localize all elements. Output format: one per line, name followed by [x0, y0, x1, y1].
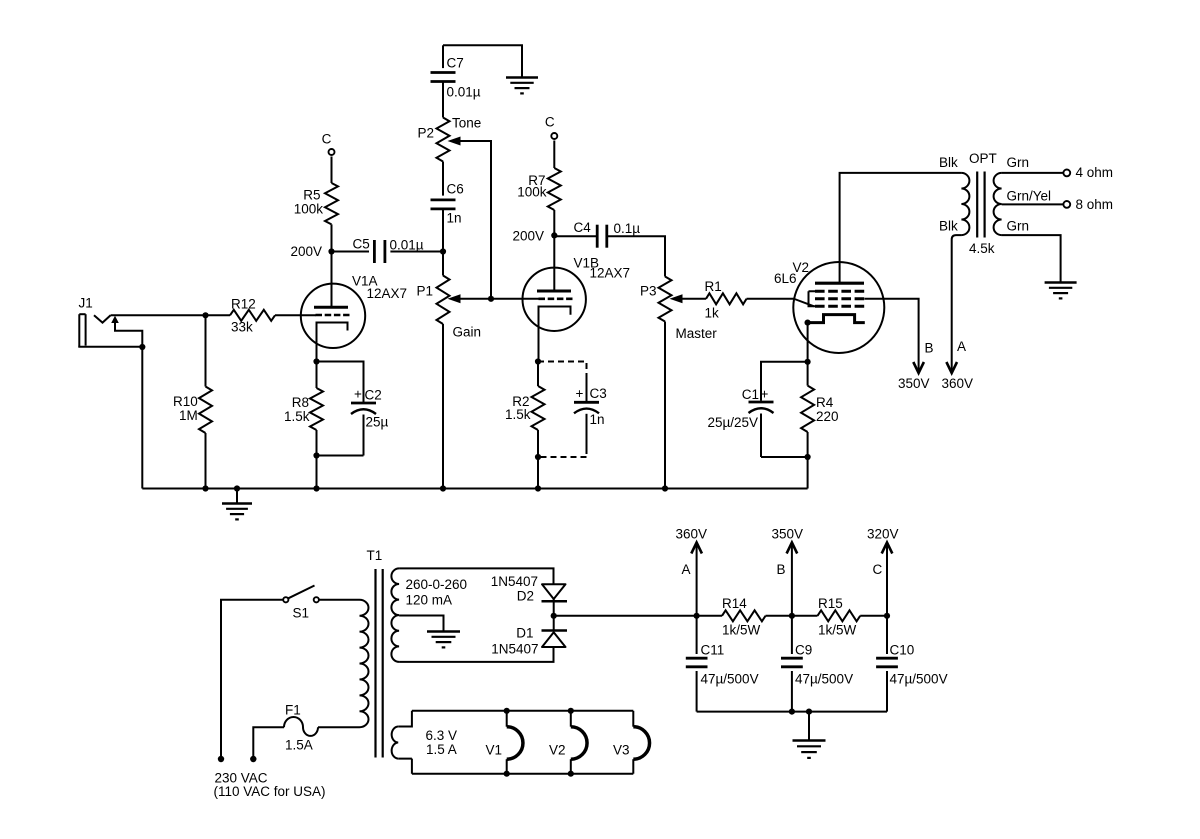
resistor R5: [331, 157, 333, 184]
wire R15 to C: [860, 615, 887, 617]
wire mains neutral to fuse: [253, 727, 284, 759]
wire OPT primary bottom to A supply: [952, 235, 962, 372]
supply arrow 350V B: [791, 543, 793, 616]
svg-text:V3: V3: [613, 743, 630, 758]
svg-text:1.5k: 1.5k: [284, 409, 310, 424]
resistor R1: [706, 293, 747, 304]
capacitor C1: [749, 401, 774, 404]
transformer OPT core: [976, 172, 978, 238]
svg-text:Blk: Blk: [939, 155, 958, 170]
node filter C: [884, 613, 890, 619]
svg-text:V2: V2: [549, 743, 566, 758]
svg-text:Gain: Gain: [453, 325, 482, 340]
svg-text:350V: 350V: [772, 527, 804, 542]
svg-text:6.3 V: 6.3 V: [426, 728, 458, 743]
node jack ground junction: [139, 344, 145, 350]
resistor R14: [722, 610, 766, 621]
transformer OPT primary winding: [961, 173, 969, 235]
node V1B cathode junction: [535, 358, 541, 364]
svg-text:1n: 1n: [590, 412, 605, 427]
heater V1: [506, 711, 508, 727]
svg-text:1.5A: 1.5A: [285, 738, 313, 753]
terminal C (V1A supply): [329, 149, 335, 155]
resistor R12: [230, 310, 275, 321]
node 200V (V1B plate): [551, 232, 557, 238]
capacitor C6: [442, 162, 444, 196]
node C3/R2 bottom: [535, 454, 541, 460]
terminal C (V1B supply): [551, 133, 557, 139]
svg-text:S1: S1: [293, 606, 310, 621]
dashed wire from C3: [538, 448, 587, 457]
svg-text:C7: C7: [447, 56, 464, 71]
svg-text:12AX7: 12AX7: [367, 286, 408, 301]
resistor R10: [205, 315, 207, 386]
wire V2 plate to OPT: [840, 173, 962, 283]
svg-text:0.01µ: 0.01µ: [447, 85, 481, 100]
wire V2 cathode down: [807, 323, 809, 362]
wire OPT secondary top tap: [1002, 172, 1063, 174]
node filter ground B: [789, 709, 795, 715]
svg-text:R12: R12: [231, 297, 256, 312]
svg-text:C6: C6: [447, 182, 464, 197]
dashed wire to C3: [538, 362, 587, 375]
svg-text:47µ/500V: 47µ/500V: [701, 672, 759, 687]
capacitor C5: [332, 251, 370, 253]
svg-text:220: 220: [816, 409, 839, 424]
svg-text:B: B: [777, 562, 786, 577]
resistor R2: [537, 362, 539, 387]
svg-text:(110 VAC for USA): (110 VAC for USA): [214, 784, 326, 799]
resistor R7: [553, 141, 555, 169]
heater V3: [632, 711, 634, 727]
svg-text:B: B: [925, 341, 934, 356]
svg-text:1k/5W: 1k/5W: [818, 623, 857, 638]
svg-text:4.5k: 4.5k: [969, 241, 995, 256]
svg-text:25µ: 25µ: [366, 415, 389, 430]
capacitor C11: [696, 616, 698, 654]
node V2 cathode: [805, 320, 811, 326]
node P3 bottom rail: [662, 485, 668, 491]
node filter ground stem: [806, 709, 812, 715]
wire OPT secondary bottom to ground: [1002, 235, 1061, 282]
wire switch to T1 primary: [319, 599, 359, 601]
svg-text:C11: C11: [701, 643, 725, 658]
capacitor C7: [442, 45, 444, 68]
wire HV bottom to D1: [399, 647, 553, 662]
svg-text:120 mA: 120 mA: [406, 593, 453, 608]
svg-text:Grn: Grn: [1007, 155, 1030, 170]
svg-text:T1: T1: [367, 548, 383, 563]
svg-text:R10: R10: [173, 394, 198, 409]
svg-text:A: A: [682, 562, 691, 577]
svg-text:R1: R1: [705, 279, 722, 294]
node ground stem rail: [234, 485, 240, 491]
potentiometer P3 Master: [659, 277, 672, 322]
svg-text:1k/5W: 1k/5W: [722, 623, 761, 638]
svg-text:F1: F1: [285, 703, 301, 718]
wire B to R15: [792, 615, 818, 617]
wire mains hot to switch: [221, 600, 283, 759]
svg-text:100k: 100k: [517, 185, 547, 200]
wire HV top to D2: [399, 568, 553, 584]
node 200V (V1A plate): [328, 248, 334, 254]
node filter B: [789, 613, 795, 619]
svg-text:R8: R8: [292, 395, 309, 410]
diode D2: [542, 584, 566, 599]
wire cathode to C1: [761, 362, 808, 401]
svg-text:100k: 100k: [294, 202, 324, 217]
svg-text:A: A: [957, 339, 966, 354]
svg-text:P3: P3: [640, 284, 657, 299]
node C2/R8 bottom: [313, 452, 319, 458]
svg-text:1.5k: 1.5k: [505, 407, 531, 422]
node cathode junction bottom: [805, 454, 811, 460]
jack switch contact arrow: [111, 316, 119, 323]
node grid-leak junction: [202, 312, 208, 318]
wire C2 bottom to R8: [317, 455, 364, 457]
wire P3 wiper to R1: [683, 298, 707, 300]
svg-text:6L6: 6L6: [774, 271, 797, 286]
transformer OPT secondary winding: [994, 173, 1002, 235]
svg-text:260-0-260: 260-0-260: [406, 577, 468, 592]
svg-text:Grn: Grn: [1007, 219, 1030, 234]
wire A to R14: [697, 615, 722, 617]
node filter A: [694, 613, 700, 619]
svg-text:1M: 1M: [179, 408, 198, 423]
svg-text:P2: P2: [417, 126, 434, 141]
wire ground rail: [142, 488, 807, 490]
node R10 rail: [202, 485, 208, 491]
transformer T1 heater winding 6.3V: [398, 711, 412, 727]
svg-text:J1: J1: [79, 296, 93, 311]
heater V2: [570, 711, 572, 727]
wire input to R12: [111, 314, 230, 316]
svg-text:33k: 33k: [231, 320, 253, 335]
tetrode V2 6L6: [793, 262, 884, 353]
wire R1 to V2 grid: [747, 298, 796, 300]
svg-text:C2: C2: [365, 388, 382, 403]
svg-text:V1: V1: [486, 743, 503, 758]
svg-text:D2: D2: [517, 589, 534, 604]
node V1A cathode junction: [313, 358, 319, 364]
svg-text:P1: P1: [416, 284, 433, 299]
potentiometer P1 Gain: [442, 252, 444, 276]
wire heater bottom rail: [412, 773, 633, 775]
resistor R4: [807, 362, 809, 386]
svg-text:4 ohm: 4 ohm: [1076, 165, 1114, 180]
node cathode junction top: [805, 359, 811, 365]
svg-text:200V: 200V: [290, 244, 322, 259]
svg-text:360V: 360V: [676, 527, 708, 542]
capacitor C4: [554, 235, 597, 237]
terminal 4 ohm: [1063, 170, 1070, 177]
wire V1B plate to 200V node: [553, 235, 555, 291]
svg-text:C10: C10: [890, 643, 915, 658]
wire fuse to T1 primary: [318, 726, 360, 728]
svg-text:C9: C9: [795, 643, 812, 658]
wire V2 screen to B supply: [865, 299, 919, 373]
svg-text:R15: R15: [818, 596, 843, 611]
svg-text:R14: R14: [722, 596, 747, 611]
svg-text:8 ohm: 8 ohm: [1076, 197, 1114, 212]
node R2 rail: [535, 485, 541, 491]
wire P2 wiper to grid bus: [461, 141, 492, 299]
svg-text:Master: Master: [676, 326, 718, 341]
capacitor C10: [886, 616, 888, 654]
wire grid bus to V1B grid: [491, 298, 539, 300]
node rectifier output: [551, 613, 557, 619]
node R8 rail: [313, 485, 319, 491]
svg-text:C3: C3: [590, 386, 607, 401]
wire cathode to rail: [807, 432, 809, 489]
svg-text:+: +: [576, 386, 584, 401]
svg-text:R5: R5: [303, 188, 320, 203]
switch S1: [283, 597, 288, 602]
ground (speaker return): [1045, 281, 1077, 283]
svg-text:47µ/500V: 47µ/500V: [795, 672, 853, 687]
svg-text:D1: D1: [516, 626, 533, 641]
transformer T1 HV secondary winding: [391, 568, 399, 662]
svg-text:1n: 1n: [447, 211, 462, 226]
svg-text:Grn/Yel: Grn/Yel: [1007, 189, 1052, 204]
resistor R15: [818, 610, 861, 621]
svg-text:C: C: [545, 115, 555, 130]
svg-text:Tone: Tone: [452, 116, 481, 131]
wire R12 to V1A grid: [275, 314, 316, 316]
svg-text:12AX7: 12AX7: [590, 266, 631, 281]
transformer T1 primary winding: [360, 600, 369, 727]
diode D1: [542, 629, 568, 632]
svg-text:Blk: Blk: [939, 219, 958, 234]
node C5 output junction: [440, 248, 446, 254]
wire rectifier to filter: [554, 615, 697, 617]
svg-text:200V: 200V: [512, 229, 544, 244]
wire jack sleeve to ground node: [78, 346, 142, 348]
svg-text:0.1µ: 0.1µ: [614, 221, 641, 236]
supply arrow 360V A: [696, 543, 698, 616]
connector J1 input jack: [78, 314, 80, 347]
wire filter ground rail: [697, 711, 887, 713]
svg-text:OPT: OPT: [969, 151, 997, 166]
ground (tone cap): [506, 76, 538, 78]
svg-text:320V: 320V: [867, 527, 899, 542]
svg-text:1k: 1k: [705, 306, 720, 321]
svg-text:25µ/25V: 25µ/25V: [708, 415, 759, 430]
wire R14 to B: [766, 615, 792, 617]
capacitor C3 (dashed option): [586, 374, 588, 401]
capacitor C2: [351, 402, 376, 405]
ground (filter): [808, 712, 810, 741]
capacitor C9: [791, 616, 793, 654]
node grid bus junction: [488, 296, 494, 302]
triode V1B: [523, 268, 586, 331]
fuse F1: [284, 717, 318, 736]
svg-text:1N5407: 1N5407: [491, 642, 538, 657]
svg-text:C: C: [322, 132, 332, 147]
terminal 8 ohm: [1063, 201, 1070, 208]
svg-text:C1: C1: [742, 387, 759, 402]
svg-text:+: +: [761, 387, 769, 402]
wire C7 top to ground: [443, 45, 522, 77]
resistor R8: [316, 362, 318, 389]
svg-text:360V: 360V: [942, 376, 974, 391]
svg-text:C4: C4: [574, 220, 592, 235]
wire C1 bottom to R4: [761, 456, 808, 458]
svg-text:C: C: [873, 562, 883, 577]
svg-text:+: +: [354, 387, 362, 402]
wire OPT secondary mid tap: [1002, 203, 1063, 205]
transformer T1 core: [374, 569, 376, 758]
svg-text:0.01µ: 0.01µ: [390, 238, 424, 253]
wire jack ground down to rail: [141, 347, 143, 489]
source 230 VAC terminals: [218, 756, 224, 762]
ground (HV center tap): [427, 630, 460, 632]
svg-text:1.5 A: 1.5 A: [426, 742, 457, 757]
triode V1A: [301, 284, 365, 348]
wire V1A plate to 200V node: [331, 252, 333, 308]
svg-text:1N5407: 1N5407: [491, 574, 538, 589]
svg-text:R4: R4: [816, 395, 834, 410]
svg-text:C5: C5: [353, 237, 370, 252]
svg-text:350V: 350V: [898, 376, 930, 391]
wire cathode to C2: [317, 362, 364, 403]
node P1 bottom rail: [440, 485, 446, 491]
wire heater top rail: [412, 710, 633, 712]
ground (main): [236, 489, 238, 504]
wire HV center tap: [399, 616, 443, 632]
potentiometer P2 Tone: [437, 118, 450, 162]
svg-text:47µ/500V: 47µ/500V: [890, 672, 948, 687]
supply arrow 320V C: [886, 543, 888, 616]
